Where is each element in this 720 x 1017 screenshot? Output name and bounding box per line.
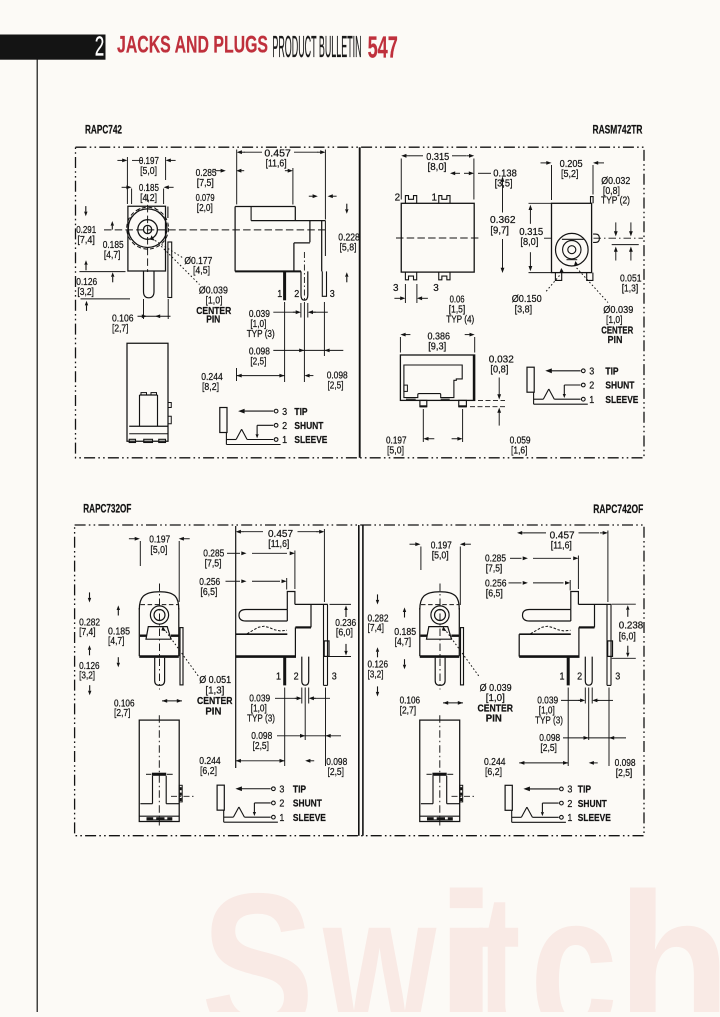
svg-text:SLEEVE: SLEEVE	[294, 435, 327, 446]
svg-text:[6,0]: [6,0]	[619, 632, 636, 643]
svg-text:TYP (3): TYP (3)	[535, 716, 563, 727]
svg-text:TIP: TIP	[293, 784, 306, 795]
svg-text:[7,5]: [7,5]	[197, 178, 214, 189]
svg-text:SHUNT: SHUNT	[605, 381, 634, 392]
svg-text:3: 3	[615, 671, 620, 682]
svg-text:TYP (3): TYP (3)	[247, 714, 275, 725]
svg-text:Ø 0.051: Ø 0.051	[199, 675, 231, 686]
svg-text:PIN: PIN	[206, 315, 220, 326]
svg-text:[7,4]: [7,4]	[77, 235, 95, 246]
svg-text:TIP: TIP	[578, 785, 591, 796]
svg-text:3: 3	[282, 407, 287, 418]
svg-text:0.197: 0.197	[149, 535, 170, 546]
svg-text:RASM742TR: RASM742TR	[593, 125, 643, 137]
svg-text:[5,8]: [5,8]	[340, 242, 357, 253]
svg-text:[8,0]: [8,0]	[428, 162, 447, 173]
svg-text:2: 2	[395, 192, 401, 203]
svg-text:[11,6]: [11,6]	[266, 159, 287, 170]
svg-text:[5,2]: [5,2]	[561, 169, 579, 180]
svg-text:[5,0]: [5,0]	[387, 446, 404, 457]
svg-text:[4,7]: [4,7]	[395, 637, 412, 648]
svg-text:[6,5]: [6,5]	[486, 589, 503, 600]
svg-text:[2,5]: [2,5]	[328, 767, 345, 778]
svg-text:[11,6]: [11,6]	[551, 540, 572, 551]
svg-text:c: c	[530, 850, 618, 1012]
svg-text:2: 2	[589, 381, 594, 392]
svg-text:SLEEVE: SLEEVE	[578, 813, 611, 824]
svg-text:2: 2	[95, 31, 105, 62]
svg-text:[5,0]: [5,0]	[150, 545, 167, 556]
svg-text:[4,7]: [4,7]	[104, 250, 121, 261]
svg-text:[9,7]: [9,7]	[490, 226, 509, 237]
svg-text:[9,3]: [9,3]	[428, 342, 446, 353]
svg-text:3: 3	[393, 283, 399, 294]
svg-text:TYP (2): TYP (2)	[601, 195, 630, 206]
svg-text:[2,5]: [2,5]	[328, 381, 344, 392]
svg-text:TYP (3): TYP (3)	[247, 329, 275, 340]
svg-text:[2,5]: [2,5]	[616, 768, 633, 779]
svg-text:3: 3	[589, 367, 594, 378]
svg-text:[1,0]: [1,0]	[486, 693, 505, 704]
svg-text:2: 2	[279, 799, 284, 810]
svg-text:[6,5]: [6,5]	[200, 587, 217, 598]
svg-text:PRODUCT BULLETIN: PRODUCT BULLETIN	[272, 30, 361, 64]
svg-text:[2,5]: [2,5]	[540, 743, 557, 754]
svg-text:[7,5]: [7,5]	[486, 564, 503, 575]
svg-text:[2,5]: [2,5]	[250, 357, 266, 368]
svg-text:2: 2	[577, 671, 582, 682]
svg-text:w: w	[322, 850, 437, 1012]
svg-text:[4,5]: [4,5]	[193, 265, 210, 276]
svg-text:[4,7]: [4,7]	[108, 636, 125, 647]
svg-text:[6,2]: [6,2]	[485, 767, 502, 778]
svg-text:[2,7]: [2,7]	[114, 708, 131, 719]
svg-text:h: h	[617, 851, 720, 1012]
svg-text:[7,4]: [7,4]	[79, 627, 96, 638]
svg-text:[2,7]: [2,7]	[400, 705, 417, 716]
svg-text:[7,4]: [7,4]	[368, 623, 385, 634]
svg-text:PIN: PIN	[486, 714, 502, 725]
svg-text:[6,0]: [6,0]	[336, 628, 353, 639]
svg-text:3: 3	[567, 785, 572, 796]
svg-text:1: 1	[589, 395, 594, 406]
svg-text:[3,2]: [3,2]	[79, 670, 95, 681]
svg-text:[11,6]: [11,6]	[268, 539, 289, 550]
svg-text:RAPC732OF: RAPC732OF	[83, 504, 131, 516]
svg-text:1: 1	[277, 289, 282, 300]
svg-text:[2,7]: [2,7]	[112, 324, 129, 335]
svg-text:[4,2]: [4,2]	[140, 193, 157, 204]
svg-text:TIP: TIP	[294, 407, 307, 418]
svg-text:1: 1	[282, 435, 287, 446]
svg-text:RAPC742: RAPC742	[85, 125, 122, 137]
svg-text:TYP (4): TYP (4)	[446, 315, 474, 326]
svg-text:[3,2]: [3,2]	[77, 287, 94, 298]
svg-text:2: 2	[294, 671, 299, 682]
svg-text:1: 1	[560, 671, 565, 682]
svg-text:Ø0.150: Ø0.150	[512, 294, 542, 305]
svg-text:PIN: PIN	[608, 335, 623, 346]
svg-text:t: t	[478, 852, 521, 1012]
svg-text:RAPC742OF: RAPC742OF	[593, 504, 643, 516]
svg-text:[3,2]: [3,2]	[368, 669, 384, 680]
svg-text:SHUNT: SHUNT	[294, 421, 323, 432]
svg-text:1: 1	[279, 813, 284, 824]
svg-text:1: 1	[276, 671, 281, 682]
svg-text:SLEEVE: SLEEVE	[293, 813, 326, 824]
svg-text:3: 3	[433, 283, 439, 294]
svg-text:3: 3	[332, 671, 337, 682]
svg-text:[3,8]: [3,8]	[515, 305, 533, 316]
svg-text:[1,3]: [1,3]	[205, 686, 224, 697]
svg-text:[6,2]: [6,2]	[200, 766, 217, 777]
svg-text:TIP: TIP	[605, 367, 618, 378]
svg-text:[1,3]: [1,3]	[622, 284, 639, 295]
svg-text:JACKS AND PLUGS: JACKS AND PLUGS	[117, 32, 268, 59]
svg-text:1: 1	[432, 192, 438, 203]
svg-text:547: 547	[368, 30, 398, 64]
svg-text:[1,6]: [1,6]	[511, 446, 528, 457]
svg-text:CENTER: CENTER	[197, 696, 233, 707]
svg-text:0.238: 0.238	[619, 621, 644, 632]
svg-text:1: 1	[567, 813, 572, 824]
svg-text:[0,8]: [0,8]	[490, 365, 508, 376]
svg-text:PIN: PIN	[205, 707, 221, 718]
svg-text:S: S	[201, 850, 314, 1012]
svg-text:SHUNT: SHUNT	[578, 799, 607, 810]
svg-text:SHUNT: SHUNT	[293, 799, 322, 810]
svg-text:0.362: 0.362	[490, 215, 516, 226]
svg-text:[5,0]: [5,0]	[140, 166, 157, 177]
svg-text:3: 3	[330, 289, 335, 300]
svg-text:[2,0]: [2,0]	[197, 203, 213, 214]
svg-text:[8,0]: [8,0]	[520, 237, 538, 248]
svg-text:3: 3	[279, 784, 284, 795]
svg-text:[2,5]: [2,5]	[253, 741, 270, 752]
svg-text:[5,0]: [5,0]	[432, 550, 449, 561]
svg-text:2: 2	[567, 799, 572, 810]
svg-text:[7,5]: [7,5]	[205, 558, 222, 569]
svg-text:SLEEVE: SLEEVE	[605, 395, 638, 406]
svg-text:2: 2	[282, 421, 287, 432]
svg-text:[8,2]: [8,2]	[202, 382, 219, 393]
svg-text:2: 2	[294, 289, 299, 300]
